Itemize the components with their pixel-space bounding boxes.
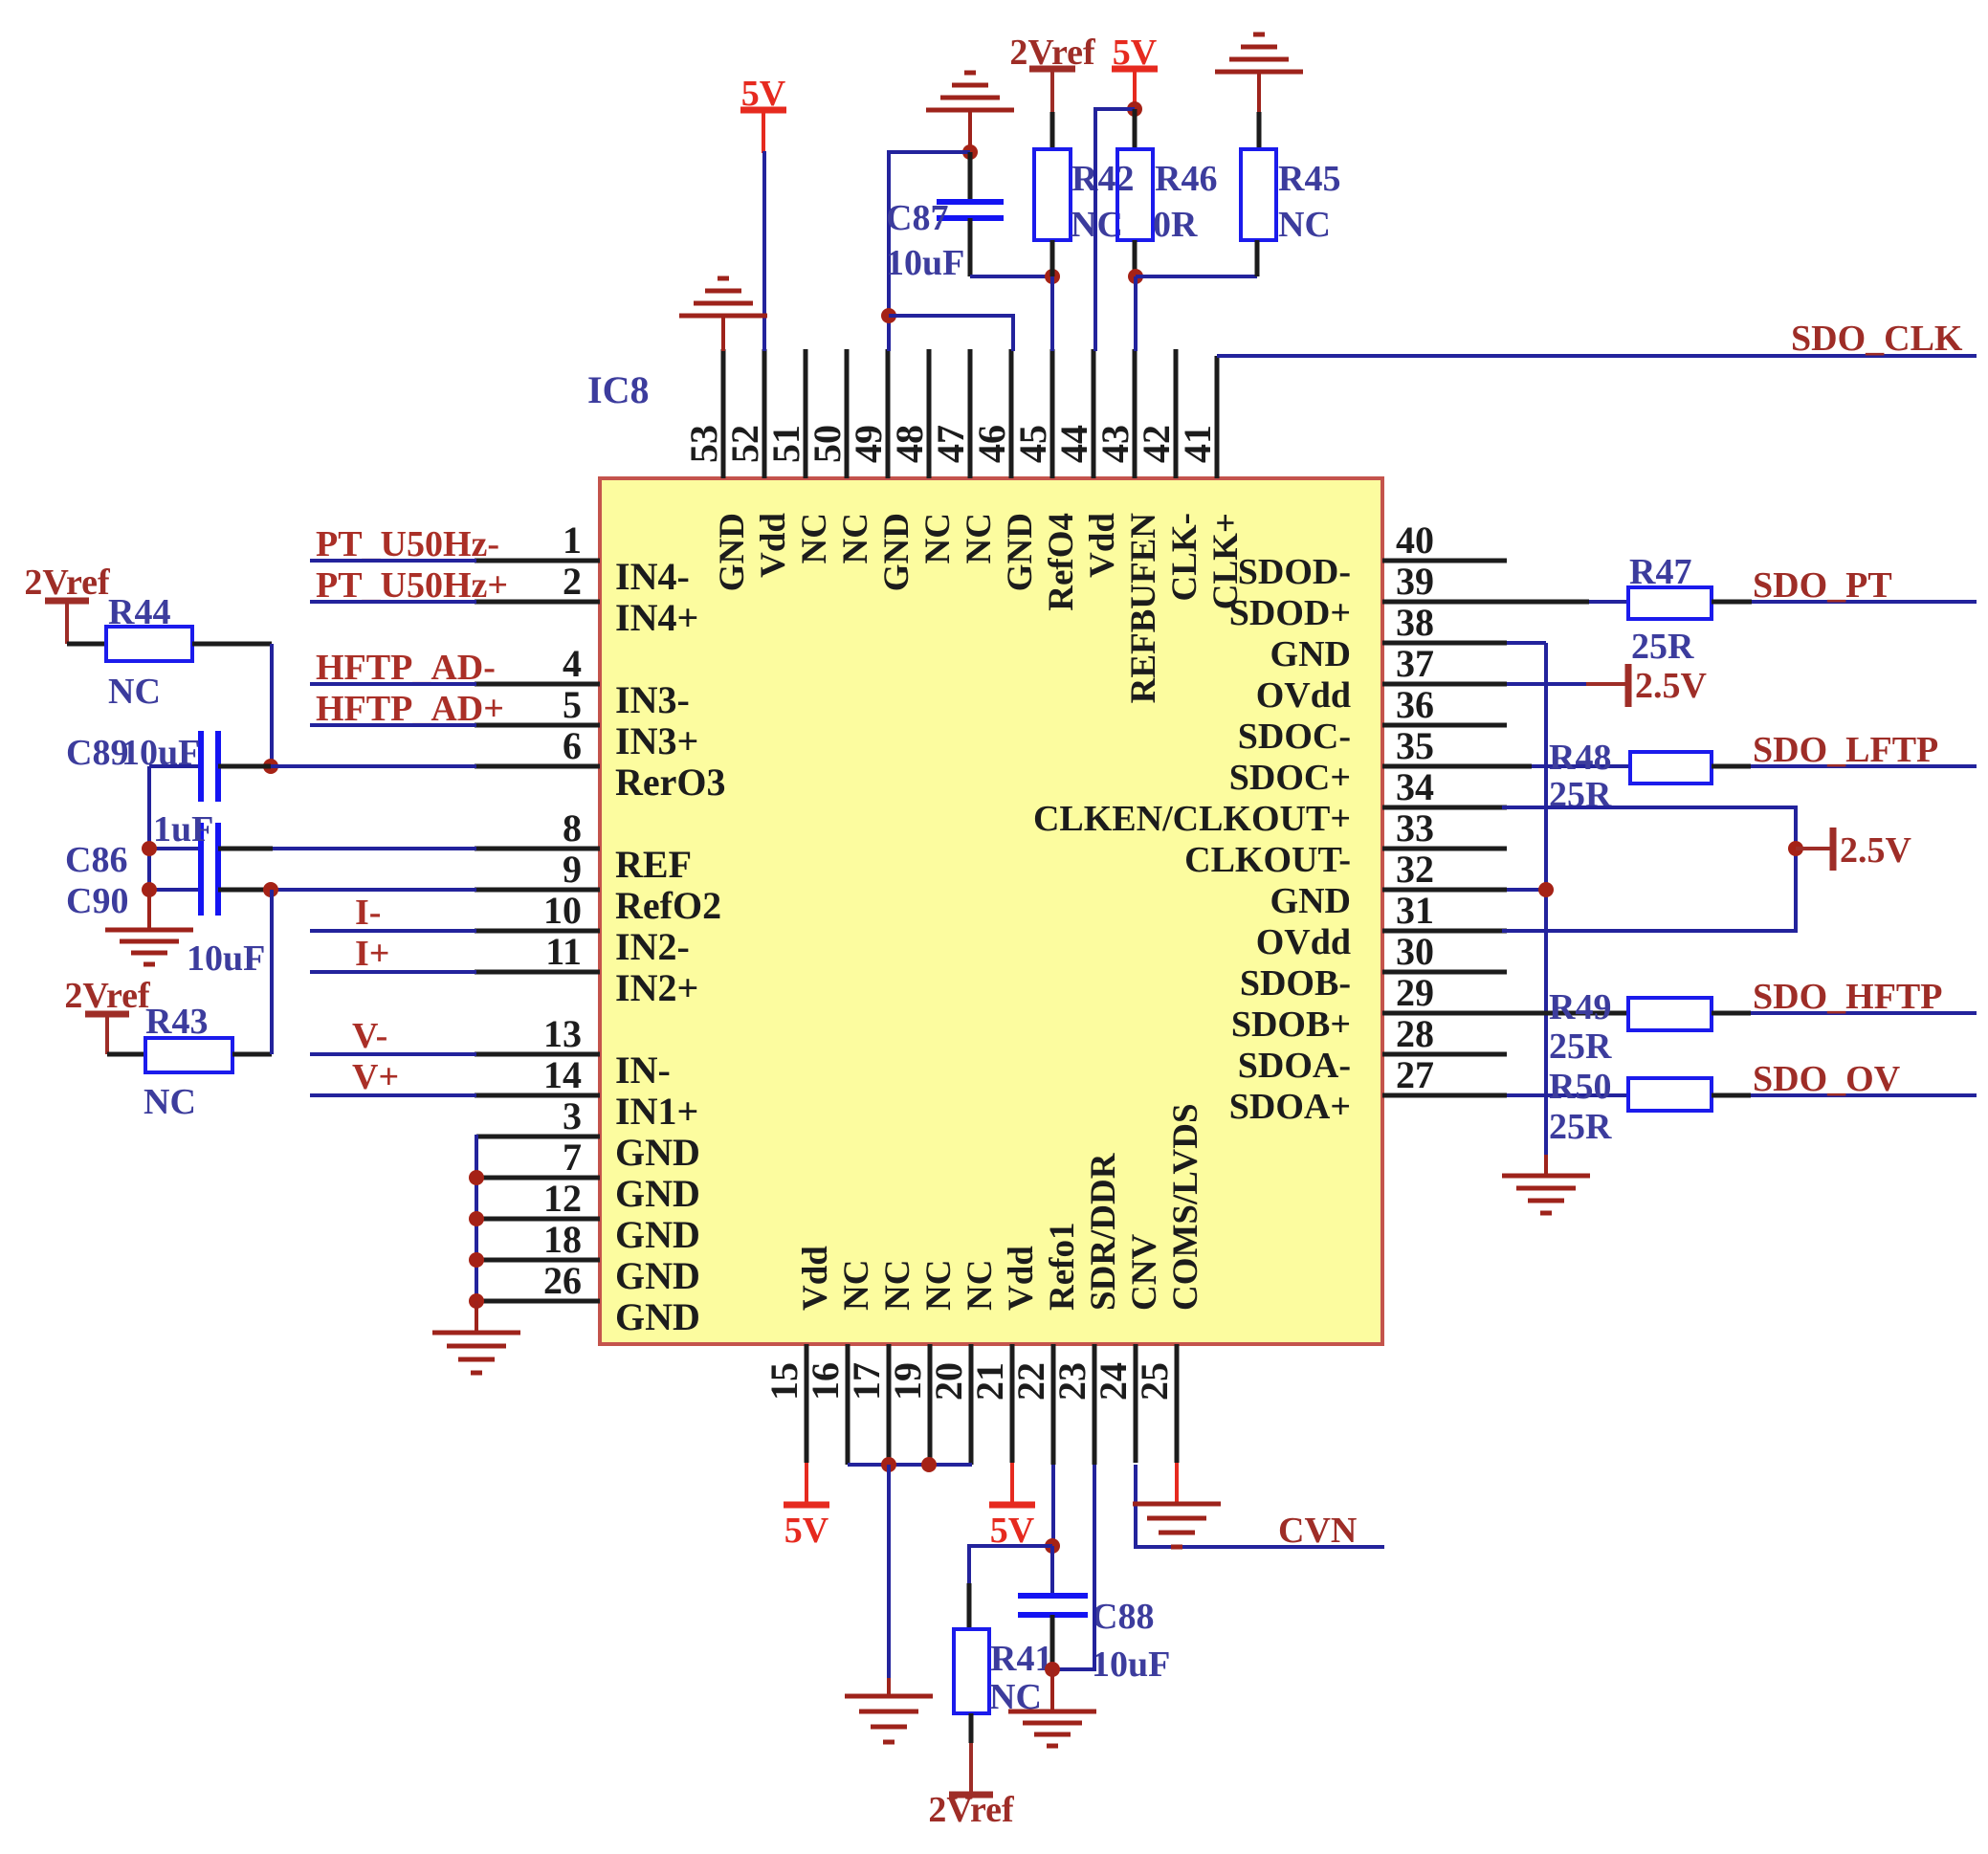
wire net SDO_PT [1752,600,1977,604]
junction RefO2 node (R43, pin 9) [263,882,278,897]
pin 8 (REF) left stub [475,806,692,886]
label R48 value 25R [1549,775,1612,815]
power 2Vref flag below R41 [928,1743,1015,1830]
svg-text:49: 49 [847,425,890,463]
wire pin 32 GND to right bus [1507,888,1546,892]
wire pin 34 / pin 31 2.5V loop [1502,807,1796,931]
ground left GND bus [432,1301,520,1373]
net label SDO_HFTP [1753,977,1942,1017]
resistor R50 [1628,1078,1751,1111]
svg-text:8: 8 [563,806,582,850]
label C90 [66,881,128,921]
wire pin 38 GND to right bus [1507,643,1546,1155]
svg-text:GND: GND [1001,513,1040,591]
pin 39 (SDOD+) right stub [1229,560,1507,633]
svg-text:GND: GND [615,1172,700,1215]
svg-text:GND: GND [1270,634,1351,674]
svg-text:30: 30 [1396,930,1434,973]
svg-text:0R: 0R [1153,205,1198,245]
resistor R41 [954,1629,989,1743]
wire net SDO_CLK from pin 41 [1217,354,1977,358]
svg-text:C89: C89 [66,733,128,773]
svg-text:37: 37 [1396,642,1434,685]
net label I+ [355,934,389,974]
pin 43 (REFBUFEN) top stub [1093,349,1163,703]
pin 28 (SDOA-) right stub [1238,1012,1507,1086]
net label HFTP_AD+ [316,689,504,729]
net label HFTP_AD- [316,648,496,688]
svg-text:31: 31 [1396,889,1434,932]
power 5V flag above R46 [1112,33,1158,109]
net label V+ [352,1057,399,1097]
wire left GND bus [475,1135,478,1301]
svg-text:40: 40 [1396,519,1434,562]
svg-text:RefO4: RefO4 [1042,513,1081,611]
wire ground node to pin 49 GND [889,152,970,351]
svg-text:NC: NC [837,1260,876,1311]
IC IC8 body [600,478,1382,1344]
svg-text:47: 47 [929,425,972,463]
svg-text:1: 1 [563,519,582,562]
svg-text:2.5V: 2.5V [1840,830,1912,871]
wire net PT_U50Hz+ [310,600,476,604]
wire net PT_U50Hz- [310,559,476,563]
wire pin 29 to R49 [1507,1011,1628,1016]
svg-text:2: 2 [563,560,582,603]
pin 37 (OVdd) right stub [1256,642,1507,716]
wire net HFTP_AD+ [310,723,476,727]
label C90 value 10uF [187,938,265,979]
junction right bus pin 32 [1538,882,1554,897]
ground below pin 25 [1133,1504,1221,1547]
pin 20 (NC) bottom stub [927,1260,1000,1465]
svg-text:7: 7 [563,1136,582,1179]
pin 12 (GND) left stub [476,1177,700,1256]
pin 11 (IN2+) left stub [475,930,698,1009]
svg-text:2Vref: 2Vref [24,563,111,603]
pin 53 (GND) top stub [682,349,752,591]
svg-text:NC: NC [836,513,875,563]
pin 14 (IN1+) left stub [475,1053,698,1133]
power 2.5V flag right [1796,828,1912,871]
svg-text:CLKEN/CLKOUT+: CLKEN/CLKOUT+ [1033,799,1351,839]
svg-text:21: 21 [968,1362,1011,1401]
pin 5 (IN3+) left stub [475,683,698,762]
junction C88 top node (pin 22, R41) [1045,1538,1060,1554]
net label SDO_PT [1753,565,1892,606]
pin 40 (SDOD-) right stub [1238,519,1507,592]
svg-text:25: 25 [1133,1362,1176,1401]
svg-text:OVdd: OVdd [1256,922,1351,962]
pin 52 (Vdd) top stub [723,349,793,578]
svg-text:SDO_PT: SDO_PT [1753,565,1892,606]
wire pin 22 to C88 node [1051,1465,1055,1546]
pin 48 (NC) top stub [888,349,958,563]
svg-text:GND: GND [1270,881,1351,921]
svg-text:42: 42 [1135,425,1178,463]
pin 10 (IN2-) left stub [475,889,690,968]
wire net SDO_HFTP [1751,1011,1977,1015]
svg-text:IN2-: IN2- [615,925,690,968]
svg-text:IN2+: IN2+ [615,966,698,1009]
pin 24 (CNV) bottom stub [1092,1234,1164,1463]
svg-text:GND: GND [615,1295,700,1338]
svg-text:5: 5 [563,683,582,726]
wire capacitor ground bus [147,766,151,890]
svg-text:32: 32 [1396,848,1434,891]
net label CVN [1278,1511,1357,1551]
svg-text:CLK-: CLK- [1165,513,1204,602]
pin 25 (COMS/LVDS) bottom stub [1133,1103,1205,1463]
pin 16 (NC) bottom stub [804,1260,876,1465]
svg-text:C90: C90 [66,881,128,921]
svg-text:NC: NC [960,513,999,563]
svg-text:39: 39 [1396,560,1434,603]
svg-text:17: 17 [845,1362,888,1401]
pin 13 (IN-) left stub [475,1012,671,1092]
pin 21 (Vdd) bottom stub [968,1246,1041,1463]
wire pin 25 to ground [1175,1463,1179,1504]
svg-text:SDR/DDR: SDR/DDR [1084,1152,1123,1311]
svg-text:48: 48 [888,425,931,463]
svg-text:35: 35 [1396,724,1434,767]
pin 1 (IN4-) left stub [475,519,690,598]
svg-text:12: 12 [543,1177,582,1220]
svg-text:44: 44 [1052,425,1095,463]
wire R44 to RerO3 node [270,644,274,766]
wire net SDO_OV [1751,1093,1977,1097]
wire bottom Vdd bus pins 16-20 [848,1463,972,1467]
pin 4 (IN3-) left stub [475,642,690,721]
svg-text:19: 19 [886,1362,929,1401]
label C89 value 10uF [121,733,200,773]
svg-text:11: 11 [545,930,582,973]
pin 47 (NC) top stub [929,349,999,563]
svg-text:SDO_OV: SDO_OV [1753,1059,1901,1099]
ground below C88 [1008,1669,1096,1746]
wire 5V to pin 52 Vdd [762,151,766,351]
pin 36 (SDOC-) right stub [1238,683,1507,757]
svg-text:NC: NC [795,513,834,563]
svg-text:27: 27 [1396,1053,1434,1096]
svg-text:Vdd: Vdd [1083,513,1122,578]
svg-text:26: 26 [543,1259,582,1302]
svg-text:R44: R44 [108,592,170,632]
svg-text:14: 14 [543,1053,582,1096]
svg-text:NC: NC [878,1260,917,1311]
label R47 [1629,552,1691,592]
svg-text:GND: GND [615,1131,700,1174]
svg-text:41: 41 [1176,425,1219,463]
net label SDO_CLK [1791,319,1963,359]
junction GND bus pin 18 [469,1252,484,1268]
ground left capacitor bus [105,890,193,964]
pin 9 (RefO2) left stub [475,848,721,927]
power 5V flag above pin 52 [740,74,786,153]
pin 27 (SDOA+) right stub [1229,1053,1507,1127]
net label V- [352,1016,387,1056]
svg-text:SDOB+: SDOB+ [1231,1004,1351,1045]
svg-text:HFTP_AD-: HFTP_AD- [316,648,496,688]
svg-text:GND: GND [713,513,752,591]
wire R45 bottom to REFBUFEN node [1136,275,1257,278]
svg-text:3: 3 [563,1094,582,1137]
label R42 value NC [1071,205,1123,245]
svg-text:GND: GND [877,513,917,591]
junction GND bus pin 7 [469,1170,484,1185]
label R42 [1071,159,1134,199]
junction C88 bottom node (pin 23, ground) [1045,1662,1060,1677]
svg-text:PT_U50Hz+: PT_U50Hz+ [316,565,508,606]
svg-text:10: 10 [543,889,582,932]
wire RefO4 node to pin 45 [1050,276,1054,351]
junction REFBUFEN node (R46 bottom, pin 43) [1128,269,1143,284]
svg-text:CNV: CNV [1125,1234,1164,1311]
svg-text:I+: I+ [355,934,389,974]
svg-text:2Vref: 2Vref [928,1790,1015,1830]
pin 32 (GND) right stub [1270,848,1507,921]
svg-text:R49: R49 [1549,987,1611,1027]
svg-text:R46: R46 [1155,159,1217,199]
net label PT_U50Hz- [316,524,499,564]
label R47 value 25R [1631,627,1694,667]
net label PT_U50Hz+ [316,565,508,606]
wire pin 27 to R50 [1507,1093,1628,1097]
resistor R45 [1241,112,1276,276]
wire net CVN from pin 24 [1136,1465,1384,1547]
label R44 [108,592,170,632]
svg-text:REFBUFEN: REFBUFEN [1124,513,1163,704]
wire net V- [310,1052,476,1056]
svg-text:C86: C86 [65,840,127,880]
svg-text:NC: NC [144,1082,196,1122]
wire 5V node to pin 44 Vdd [1095,109,1135,351]
svg-text:SDOA-: SDOA- [1238,1046,1351,1086]
wire net V+ [310,1093,476,1097]
svg-text:CLKOUT-: CLKOUT- [1184,840,1351,880]
wire C88 node to R41 [969,1546,1052,1629]
capacitor C89 [149,731,476,802]
wire net I- [310,929,476,933]
pin 3 (GND) left stub [476,1094,700,1174]
svg-text:COMS/LVDS: COMS/LVDS [1166,1103,1205,1311]
capacitor C88 [1018,1546,1088,1669]
svg-text:SDO_CLK: SDO_CLK [1791,319,1963,359]
svg-text:C88: C88 [1092,1597,1154,1637]
svg-text:R47: R47 [1629,552,1691,592]
pin 15 (Vdd) bottom stub [762,1246,835,1463]
svg-text:NC: NC [108,672,161,712]
pin 30 (SDOB-) right stub [1240,930,1507,1004]
label C87 value 10uF [886,243,964,283]
svg-text:46: 46 [970,425,1013,463]
svg-text:16: 16 [804,1362,847,1401]
ground bottom bus [845,1678,933,1742]
svg-text:45: 45 [1011,425,1054,463]
pin 19 (NC) bottom stub [886,1260,959,1465]
svg-text:23: 23 [1050,1362,1093,1401]
wire net HFTP_AD- [310,682,476,686]
svg-text:53: 53 [682,425,725,463]
svg-text:10uF: 10uF [187,938,265,979]
junction bottom bus pin 19 [921,1457,937,1472]
svg-text:4: 4 [563,642,582,685]
svg-text:SDOA+: SDOA+ [1229,1087,1351,1127]
svg-text:SDOC+: SDOC+ [1229,758,1351,798]
label R44 value NC [108,672,161,712]
svg-text:28: 28 [1396,1012,1434,1055]
label R41 [990,1639,1052,1679]
label R43 value NC [144,1082,196,1122]
svg-text:RefO2: RefO2 [615,884,721,927]
resistor R42 [1034,112,1071,276]
junction GND bus pin 26 [469,1293,484,1309]
ground above R45 [1215,34,1303,112]
svg-text:V+: V+ [352,1057,399,1097]
wire bottom bus to ground [887,1465,891,1678]
pin 38 (GND) right stub [1270,601,1507,674]
svg-text:GND: GND [615,1254,700,1297]
resistor R46 [1117,109,1153,276]
capacitor C87 [937,152,1004,276]
net label SDO_LFTP [1753,730,1938,770]
svg-text:6: 6 [563,724,582,767]
resistor R48 [1630,752,1751,784]
pin 49 (GND) top stub [847,349,917,591]
wire pin 23 to C88 bottom node [1052,1465,1094,1669]
label R50 value 25R [1549,1107,1612,1147]
junction pin 49 branch to pin 46 [881,308,896,323]
power 2Vref flag at R43 [64,976,151,1054]
label R45 [1278,159,1340,199]
svg-text:IN1+: IN1+ [615,1090,698,1133]
wire C87 to RefO4 node [970,275,1052,278]
pin 18 (GND) left stub [476,1218,700,1297]
junction bottom bus pin 17 [881,1457,896,1472]
svg-text:HFTP_AD+: HFTP_AD+ [316,689,504,729]
svg-text:52: 52 [723,425,766,463]
svg-text:33: 33 [1396,806,1434,850]
svg-text:51: 51 [764,425,807,463]
svg-text:43: 43 [1093,425,1137,463]
svg-text:OVdd: OVdd [1256,675,1351,716]
capacitor C86 [149,823,476,874]
svg-text:V-: V- [352,1016,387,1056]
pin 41 (CLK+) top stub [1176,356,1246,609]
pin 46 (GND) top stub [970,349,1040,591]
junction 5V / R46 top / pin 44 feed [1127,101,1142,117]
power 5V flag below pin 15 [784,1463,829,1551]
wire net I+ [310,970,476,974]
svg-text:24: 24 [1092,1362,1135,1401]
svg-text:10uF: 10uF [886,243,964,283]
pin 2 (IN4+) left stub [475,560,698,639]
ground above pin 53 [679,278,767,351]
svg-text:GND: GND [615,1213,700,1256]
label R41 value NC [989,1677,1042,1717]
svg-text:NC: NC [918,513,958,563]
svg-text:R43: R43 [145,1002,208,1042]
svg-text:10uF: 10uF [1092,1644,1170,1685]
pin 29 (SDOB+) right stub [1231,971,1507,1045]
label R43 [145,1002,208,1042]
label R46 value 0R [1153,205,1198,245]
svg-text:IN3-: IN3- [615,678,690,721]
svg-text:15: 15 [762,1362,806,1401]
svg-text:IN-: IN- [615,1048,671,1092]
svg-text:SDO_LFTP: SDO_LFTP [1753,730,1938,770]
label R48 [1549,738,1611,778]
label C86 [65,840,127,880]
power 5V flag below pin 21 [989,1463,1035,1551]
svg-text:20: 20 [927,1362,970,1401]
wire pin 37 OVdd to 2.5V [1507,682,1628,686]
power 2Vref flag at R44 [24,563,111,644]
resistor R47 [1628,587,1752,619]
resistor R44 [67,627,272,661]
wire REFBUFEN node to pin 43 [1134,276,1138,351]
svg-text:NC: NC [961,1260,1000,1311]
resistor R49 [1628,998,1751,1030]
svg-text:R42: R42 [1071,159,1134,199]
svg-text:IN4+: IN4+ [615,596,698,639]
net label I- [355,893,381,933]
svg-text:SDOC-: SDOC- [1238,717,1351,757]
svg-text:SDOD-: SDOD- [1238,552,1351,592]
pin 23 (SDR/DDR) bottom stub [1050,1152,1123,1465]
junction 2.5V tap on loop [1788,841,1803,856]
svg-text:Vdd: Vdd [754,513,793,578]
svg-text:13: 13 [543,1012,582,1055]
svg-text:IN4-: IN4- [615,555,690,598]
pin 6 (RerO3) left stub [475,724,726,804]
pin 31 (OVdd) right stub [1256,889,1507,962]
svg-text:IC8: IC8 [587,368,649,411]
pin 26 (GND) left stub [476,1259,700,1338]
svg-text:R45: R45 [1278,159,1340,199]
power 2.5V flag at pin 37 [1628,664,1708,707]
pin 34 (CLKEN/CLKOUT+) right stub [1033,765,1507,839]
label C86 value 1uF [153,809,213,850]
svg-text:36: 36 [1396,683,1434,726]
pin 42 (CLK-) top stub [1135,349,1204,602]
svg-text:R41: R41 [990,1639,1052,1679]
ground right bus [1502,1155,1590,1213]
svg-text:25R: 25R [1631,627,1694,667]
label IC8 designator [587,368,649,411]
label C89 [66,733,128,773]
wire pin 39 to R47 [1507,600,1628,605]
svg-text:29: 29 [1396,971,1434,1014]
svg-text:SDO_HFTP: SDO_HFTP [1753,977,1942,1017]
pin 33 (CLKOUT-) right stub [1184,806,1507,880]
net label SDO_OV [1753,1059,1901,1099]
svg-text:2Vref: 2Vref [64,976,151,1016]
label C88 value 10uF [1092,1644,1170,1685]
label R49 [1549,987,1611,1027]
label C88 [1092,1597,1154,1637]
pin 50 (NC) top stub [806,349,875,563]
svg-text:18: 18 [543,1218,582,1261]
label R49 value 25R [1549,1026,1612,1067]
svg-text:25R: 25R [1549,1026,1612,1067]
svg-text:5V: 5V [784,1511,829,1551]
wire R43 to RefO2 node [270,890,274,1054]
svg-text:25R: 25R [1549,1107,1612,1147]
svg-text:38: 38 [1396,601,1434,644]
svg-text:Refo1: Refo1 [1043,1223,1082,1311]
svg-text:CVN: CVN [1278,1511,1357,1551]
